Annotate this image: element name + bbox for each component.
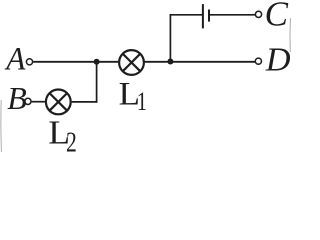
scan artifact left edge (0, 100, 3, 152)
terminal B (25, 98, 31, 104)
svg-text:B: B (7, 80, 27, 116)
node junction J2 (167, 59, 173, 65)
terminal A (26, 59, 32, 65)
wire B to lamp L2 (32, 101, 46, 103)
svg-text:2: 2 (66, 127, 77, 155)
terminal C (255, 11, 261, 17)
node junction J1 (94, 59, 100, 65)
wire A to lamp L1 (33, 61, 118, 63)
terminal D (255, 58, 261, 64)
lamp L1 (119, 50, 144, 75)
battery short plate (208, 10, 210, 22)
wire battery to terminal C (209, 14, 255, 16)
wire junction J2 up to top branch (169, 14, 171, 62)
scan artifact right edge (289, 18, 291, 52)
wire corner up to junction J1 (96, 62, 98, 103)
svg-text:D: D (265, 41, 291, 78)
svg-text:C: C (265, 0, 289, 34)
svg-text:A: A (4, 40, 25, 77)
wire lamp L1 to terminal D (145, 61, 256, 63)
svg-text:1: 1 (137, 88, 147, 117)
wire lamp L2 to corner (72, 101, 98, 103)
lamp L2 (46, 90, 71, 115)
battery long plate (202, 4, 204, 28)
wire top branch to battery (170, 14, 203, 16)
